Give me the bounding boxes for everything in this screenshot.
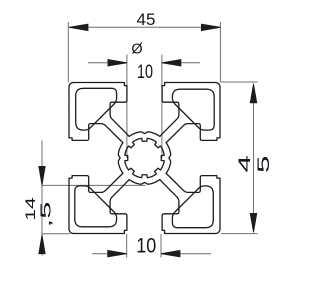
dim line 10 bottom-right (161, 253, 211, 255)
corner chamber cavity top-right (172, 89, 214, 130)
corner chamber cavity bottom-right (172, 186, 213, 228)
ext line 45 right-top (221, 81, 258, 83)
dim line 45 right (253, 84, 255, 233)
svg-text:10: 10 (137, 62, 153, 83)
arrow 14.5 lower (39, 235, 45, 254)
dim line O10 left (88, 62, 127, 64)
arrow O10 right (162, 60, 181, 67)
arrow 45 top-right (201, 24, 220, 31)
ext line 10 bottom-left (126, 234, 128, 258)
dim line 45 top (69, 26, 220, 28)
arrow 45 right-bottom (250, 213, 257, 232)
arrow 10 bottom-left (108, 250, 127, 257)
ext line 45 top-right (219, 22, 221, 82)
arrow 45 right-top (250, 84, 257, 103)
arrow 45 top-left (69, 24, 88, 31)
svg-text:14: 14 (22, 197, 38, 221)
ext line 45 right-bottom (221, 233, 258, 235)
ext line O10 left (126, 55, 128, 159)
corner chamber cavity top-left (76, 88, 117, 130)
svg-text:Ø: Ø (131, 42, 142, 58)
svg-text:10: 10 (136, 235, 156, 258)
svg-text:45: 45 (137, 10, 156, 29)
ext line 10 bottom-right (160, 234, 162, 258)
svg-text:,5: ,5 (38, 202, 55, 228)
svg-text:5: 5 (254, 155, 273, 173)
ext line 45 top-left (67, 22, 69, 82)
dim line 10 bottom-left (92, 253, 127, 255)
profile outer boundary with T-slots (69, 83, 220, 234)
arrow 14.5 upper (39, 166, 45, 185)
center bore with splines (125, 138, 164, 177)
ext line 14.5 lower (42, 233, 70, 235)
arrow 10 bottom-right (161, 250, 180, 257)
ext line O10 right (161, 55, 163, 159)
svg-text:4: 4 (235, 155, 254, 173)
dim line O10 right (162, 62, 200, 64)
arrow O10 left (108, 60, 127, 67)
dim line 14.5 left (41, 141, 43, 256)
corner chamber cavity bottom-left (75, 186, 117, 227)
ext line 14.5 upper (42, 184, 146, 186)
